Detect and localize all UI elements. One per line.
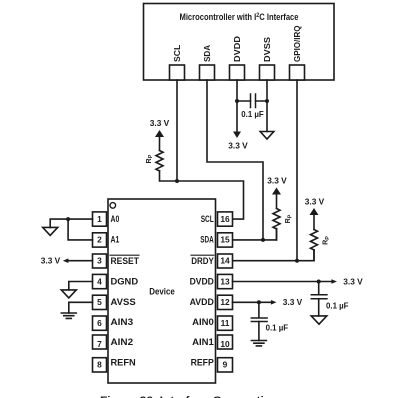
resistor R2 Rp (SDA pull-up) (267, 176, 293, 240)
svg-text:DRDY: DRDY (191, 256, 214, 266)
wire DVDD supply drop (236, 80, 238, 132)
svg-text:10: 10 (220, 339, 230, 349)
svg-text:3.3 V: 3.3 V (343, 277, 363, 287)
pin DVDD (microcontroller) (230, 36, 245, 80)
pin 15 SDA (200, 233, 232, 247)
svg-text:SDA: SDA (202, 45, 212, 62)
node SCL junction (175, 179, 179, 183)
wire DGND to ground (69, 282, 93, 290)
svg-text:3.3 V: 3.3 V (305, 197, 325, 207)
svg-text:3.3 V: 3.3 V (283, 297, 303, 307)
svg-text:1: 1 (97, 214, 102, 224)
svg-text:REFN: REFN (111, 357, 136, 367)
pin 11 AIN0 (192, 316, 232, 330)
svg-text:16: 16 (220, 214, 230, 224)
arrow right 3.3V (DVDD) (331, 279, 337, 284)
pin 1 indicator circle (110, 203, 116, 209)
svg-text:11: 11 (221, 318, 230, 328)
svg-text:3.3 V: 3.3 V (150, 118, 170, 128)
pin 3 RESET (93, 254, 140, 268)
svg-text:6: 6 (97, 318, 102, 328)
svg-text:A0: A0 (111, 214, 120, 224)
pin DVSS (microcontroller) (260, 37, 275, 80)
resistor R3 Rp (DRDY pull-up) (305, 197, 331, 261)
capacitor C1 0.1uF (between DVDD and DVSS) (237, 94, 267, 119)
wire GPIO/IRQ net (233, 80, 315, 261)
wire SCL net (177, 80, 244, 219)
svg-text:Device: Device (149, 287, 175, 297)
device box U1 (108, 199, 216, 383)
svg-text:3.3 V: 3.3 V (228, 141, 248, 151)
svg-text:A1: A1 (111, 235, 120, 245)
pin 1 A0 (93, 212, 120, 226)
svg-text:Microcontroller with I2C Inter: Microcontroller with I2C Interface (180, 11, 299, 22)
pin 16 SCL (201, 212, 233, 226)
ground AVSS (earth) (61, 313, 76, 318)
svg-text:SDA: SDA (200, 235, 214, 245)
pin 10 AIN1 (192, 335, 232, 349)
svg-text:AIN3: AIN3 (111, 317, 134, 327)
resistor R1 Rp (SCL pull-up) (144, 118, 177, 181)
svg-text:RP: RP (144, 154, 154, 163)
node DVDD pin13 junction (317, 280, 321, 284)
svg-text:AVDD: AVDD (190, 297, 215, 307)
pin 14 DRDY (191, 254, 233, 268)
node SDA junction (261, 238, 265, 242)
svg-text:SCL: SCL (201, 214, 214, 224)
svg-text:12: 12 (220, 297, 230, 307)
svg-text:GPIO/IRQ: GPIO/IRQ (292, 25, 302, 62)
capacitor C2 0.1uF (DVDD decoupling) (311, 282, 348, 316)
svg-text:SCL: SCL (172, 45, 182, 62)
svg-text:DVDD: DVDD (232, 36, 242, 62)
pin 5 AVSS (93, 295, 136, 309)
wire DVSS drop (266, 80, 268, 132)
pin 4 DGND (93, 274, 139, 288)
pin 7 AIN2 (93, 335, 134, 349)
pin 12 AVDD (190, 295, 233, 309)
arrow left 3.3V (RESET) (63, 258, 69, 263)
capacitor C3 0.1uF (AVDD decoupling) (251, 302, 288, 340)
pin 9 REFP (191, 357, 233, 372)
svg-text:AIN1: AIN1 (192, 337, 214, 347)
svg-text:0.1 µF: 0.1 µF (241, 109, 264, 119)
svg-text:8: 8 (97, 360, 102, 370)
node DVSS junction (265, 99, 269, 103)
wire AVDD pin12 to 3.3V (233, 301, 272, 303)
svg-text:0.1 µF: 0.1 µF (266, 323, 289, 333)
svg-text:15: 15 (220, 235, 230, 245)
svg-text:3.3 V: 3.3 V (41, 256, 61, 266)
arrow 3.3V down (DVDD microcontroller) (233, 132, 241, 139)
svg-text:14: 14 (220, 256, 230, 266)
pin 13 DVDD (190, 274, 233, 288)
svg-text:4: 4 (97, 276, 102, 286)
pin 2 A1 (93, 233, 120, 247)
svg-text:2: 2 (97, 235, 102, 245)
wire A0/A1 to ground (50, 219, 92, 240)
arrow right 3.3V (AVDD) (271, 300, 277, 305)
svg-text:AIN0: AIN0 (192, 317, 214, 327)
ground A0/A1 (open triangle) (43, 227, 58, 235)
wire DVDD pin13 to 3.3V (233, 281, 333, 283)
ground DVSS (open triangle) (260, 132, 274, 140)
pin 8 REFN (93, 357, 136, 372)
svg-text:RESET: RESET (111, 256, 140, 266)
svg-text:REFP: REFP (191, 357, 214, 367)
pin SDA (microcontroller) (200, 45, 215, 80)
node A0/A1 junction (66, 217, 70, 221)
wire SDA net (207, 80, 277, 240)
pin GPIO/IRQ (microcontroller) (290, 25, 305, 80)
ground AVDD cap (earth) (251, 341, 266, 346)
svg-text:AVSS: AVSS (111, 297, 136, 307)
svg-text:DVDD: DVDD (190, 276, 215, 286)
node AVDD pin12 junction (257, 300, 261, 304)
svg-text:5: 5 (97, 297, 102, 307)
microcontroller box U2 (144, 4, 335, 81)
node DVDD junction (235, 99, 239, 103)
wire AVSS to earth ground (69, 302, 93, 313)
svg-text:RP: RP (321, 236, 331, 245)
svg-text:9: 9 (223, 360, 228, 370)
node DRDY junction (295, 259, 299, 263)
pin 6 AIN3 (93, 316, 134, 330)
svg-text:RP: RP (283, 214, 293, 223)
svg-text:DVSS: DVSS (262, 37, 272, 62)
svg-text:0.1 µF: 0.1 µF (326, 301, 349, 311)
ground DVDD cap (open triangle) (311, 316, 327, 324)
svg-text:3: 3 (97, 256, 102, 266)
svg-text:AIN2: AIN2 (111, 337, 134, 347)
ground DGND (open triangle) (61, 290, 76, 298)
svg-text:13: 13 (220, 276, 230, 286)
wire RESET to 3.3V (68, 260, 93, 262)
svg-text:3.3 V: 3.3 V (267, 176, 287, 186)
svg-text:DGND: DGND (111, 276, 139, 286)
pin SCL (microcontroller) (170, 45, 185, 80)
svg-text:7: 7 (97, 339, 102, 349)
